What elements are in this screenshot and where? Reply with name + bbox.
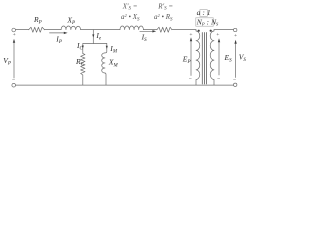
arrowhead ES (218, 38, 220, 42)
svg-text:IP: IP (55, 35, 62, 46)
wire to transformer (172, 29, 196, 31)
arrowhead Ie (92, 34, 94, 37)
transformer primary winding (196, 30, 200, 86)
svg-text:VS: VS (239, 52, 247, 63)
terminal top-left (12, 28, 16, 32)
svg-text:−: − (12, 77, 15, 83)
svg-text:EP: EP (182, 55, 191, 66)
svg-text:VP: VP (3, 56, 11, 67)
arrowhead IC (82, 46, 84, 49)
terminal top-right (234, 28, 237, 31)
svg-text:Ie: Ie (95, 31, 102, 42)
IS current arrow (140, 30, 154, 32)
RC branch top (82, 44, 84, 54)
svg-text:XP: XP (66, 15, 75, 26)
arrowhead EP (190, 37, 192, 41)
resistor RS' (157, 27, 172, 32)
wire secondary top (214, 29, 233, 31)
resistor RC (81, 54, 85, 76)
svg-text:a2 • RS: a2 • RS (154, 13, 173, 22)
Np:Ns ratio box (196, 18, 219, 27)
XM branch top (105, 44, 107, 53)
svg-text:IM: IM (109, 44, 118, 55)
svg-text:ES: ES (224, 53, 233, 64)
XM branch bottom (105, 73, 106, 85)
arrowhead IS (152, 30, 156, 32)
arrowhead VP (13, 39, 15, 43)
a:1 ratio box (197, 8, 211, 17)
svg-text:R′S =: R′S = (157, 2, 173, 11)
svg-text:+: + (234, 33, 237, 39)
VS arrow line (235, 42, 237, 78)
svg-text:NP : NS: NP : NS (196, 18, 219, 27)
shunt bar (83, 43, 107, 45)
arrowhead VS (234, 40, 236, 44)
transformer core (201, 33, 203, 85)
svg-text:−: − (233, 77, 236, 83)
VP arrow line (13, 42, 15, 79)
terminal bottom-right (234, 83, 237, 86)
wire (143, 29, 157, 31)
wire top-left (16, 29, 29, 31)
polarity dot secondary (210, 30, 212, 32)
terminal bottom-left (12, 83, 16, 87)
wire (81, 29, 120, 31)
svg-text:+: + (189, 32, 192, 38)
arrowhead IM (106, 46, 108, 49)
svg-text:−: − (217, 76, 220, 82)
arrowhead IP (64, 32, 68, 34)
ES arrow line (218, 41, 220, 76)
svg-text:XM: XM (108, 58, 119, 69)
svg-text:+: + (216, 32, 219, 38)
inductor XP (61, 26, 81, 30)
polarity dot primary (198, 30, 200, 32)
inductor XS' (120, 26, 143, 30)
svg-text:a2 • XS: a2 • XS (121, 13, 140, 22)
svg-text:+: + (13, 32, 16, 38)
svg-text:a : 1: a : 1 (197, 8, 211, 17)
wire (45, 29, 62, 31)
svg-text:IS: IS (141, 33, 148, 44)
svg-text:−: − (189, 76, 192, 82)
bottom wire (16, 84, 234, 86)
svg-text:IC: IC (76, 41, 84, 52)
svg-text:RP: RP (33, 15, 42, 26)
IP current arrow (50, 32, 65, 34)
EP arrow line (190, 40, 192, 76)
inductor XM (102, 53, 105, 73)
shunt branch drop (92, 30, 94, 44)
RC branch bottom (82, 75, 84, 85)
resistor RP (29, 27, 45, 32)
svg-text:X′S =: X′S = (122, 2, 138, 11)
transformer secondary winding (210, 30, 214, 86)
